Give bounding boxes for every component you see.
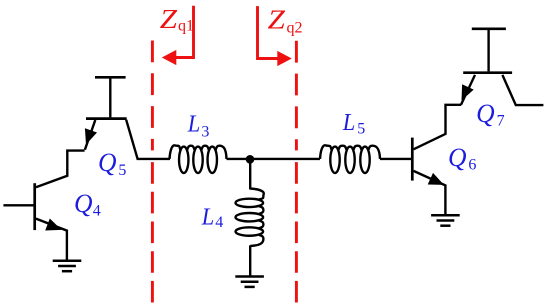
svg-text:q1: q1	[178, 18, 194, 35]
svg-text:5: 5	[357, 120, 365, 137]
transistor Q7 base stub	[472, 29, 506, 72]
reference plane dashed line 1	[151, 41, 154, 303]
ground below Q6	[431, 215, 460, 225]
svg-text:L: L	[187, 111, 200, 137]
transistor Q4 emitter	[36, 219, 67, 260]
inductor L4	[236, 189, 264, 246]
svg-text:5: 5	[118, 162, 126, 179]
transistor Q4 base lead	[3, 204, 34, 206]
Zq1 arrow	[162, 6, 194, 65]
transistor Q7 collector	[502, 75, 543, 105]
transistor Q5 emitter	[85, 120, 97, 150]
label Q7	[476, 99, 505, 130]
transistor Q5 base stub	[95, 77, 126, 117]
wire L3 to L5	[227, 158, 321, 160]
svg-text:Q: Q	[448, 143, 467, 172]
label Q4	[74, 189, 101, 220]
transistor Q7 emitter	[461, 75, 475, 105]
wire L4 to ground	[249, 245, 251, 275]
transistor Q5 base bar	[86, 117, 127, 120]
inductor L5	[320, 145, 380, 173]
label L5	[342, 110, 365, 137]
reference plane dashed line 2	[295, 41, 298, 303]
svg-text:Q: Q	[74, 189, 93, 218]
Zq2 arrow	[258, 6, 292, 66]
svg-text:Q: Q	[476, 99, 495, 128]
svg-text:q2: q2	[287, 19, 303, 36]
wire L5 to Q6	[380, 158, 411, 160]
label Q5	[98, 148, 126, 179]
transistor Q6 emitter	[414, 171, 446, 215]
ground below Q4	[53, 261, 82, 271]
svg-text:Z: Z	[268, 5, 286, 35]
node junction dot	[246, 155, 255, 164]
svg-text:Z: Z	[160, 4, 178, 34]
svg-text:6: 6	[468, 157, 476, 174]
svg-text:L: L	[201, 204, 214, 230]
label Q6	[448, 143, 476, 174]
label Zq1	[160, 4, 194, 35]
svg-text:7: 7	[497, 113, 505, 130]
svg-text:Q: Q	[98, 148, 117, 177]
label L3	[187, 111, 210, 140]
transistor Q5 collector	[126, 120, 170, 159]
label L4	[201, 204, 223, 231]
transistor Q6 collector	[414, 105, 462, 150]
svg-text:3: 3	[201, 123, 209, 140]
transistor Q6 base bar	[411, 138, 414, 181]
transistor Q4 collector	[36, 151, 85, 188]
svg-text:L: L	[342, 110, 355, 136]
svg-text:4: 4	[93, 202, 101, 219]
transistor Q7 base bar	[463, 71, 512, 74]
wire junction to L4	[249, 159, 251, 190]
transistor Q4 base bar	[33, 183, 36, 230]
svg-text:4: 4	[215, 214, 223, 231]
ground below L4	[235, 277, 264, 287]
inductor L3	[170, 145, 227, 173]
label Zq2	[268, 5, 303, 37]
